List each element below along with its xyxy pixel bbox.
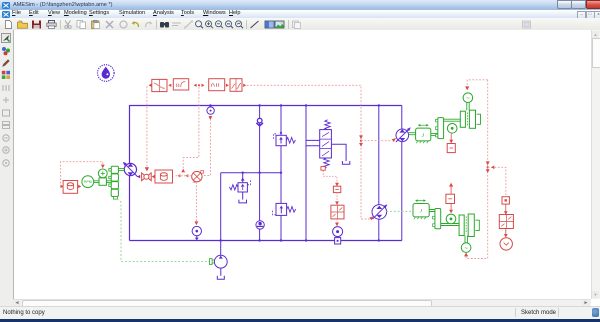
wire top main bbox=[130, 105, 402, 107]
check valve CV2 bbox=[256, 221, 264, 229]
wire riser x306 bbox=[305, 106, 307, 241]
speed sensor SS2 bbox=[446, 214, 456, 224]
tank T1 under relief valve bbox=[239, 192, 247, 203]
wire bottom main bbox=[130, 240, 402, 242]
torque sink box R2 bbox=[446, 183, 455, 214]
arrow into pump M2 bbox=[369, 215, 374, 220]
pump/motor M1 top right bbox=[396, 126, 412, 142]
coupler CP2 bbox=[433, 209, 441, 229]
rotary load J2 bbox=[413, 199, 429, 219]
gain block G2 bbox=[502, 197, 509, 204]
wire riser x220.7 to pump M3 bbox=[220, 173, 222, 256]
shaft CP2 to clutch CL2 bbox=[441, 224, 459, 226]
generator circle GC1 bbox=[463, 93, 473, 110]
arrow B0 to RPM source bbox=[78, 185, 81, 189]
gain block G1 bbox=[333, 186, 340, 192]
mech wire pump M2 to load J2 bbox=[386, 210, 413, 212]
coupler nub into M3 bbox=[210, 259, 215, 265]
pressure sensor S2 bottom left bbox=[192, 226, 201, 240]
clutch CL2 bbox=[459, 214, 479, 237]
arrow into sensor SP bbox=[101, 165, 105, 169]
svg-text:~: ~ bbox=[466, 96, 470, 102]
mech wire stack to motor M3 bbox=[117, 199, 209, 261]
wire right riser below pump M1 bbox=[401, 142, 403, 241]
coupler CP1 bbox=[436, 118, 444, 139]
pump P1 main (variable) bbox=[122, 161, 138, 177]
directional valve DV1 body bbox=[320, 130, 332, 158]
shaft PM1 to gearbox bbox=[94, 181, 99, 183]
valve DV1 signal output to display chain bbox=[323, 171, 337, 185]
check valve CV1 (ball seat) bbox=[256, 118, 263, 126]
arrow B5 to X1 bbox=[152, 175, 155, 178]
shaft gearbox to pump stack bbox=[106, 181, 111, 183]
signal wire junction to T-node bbox=[183, 87, 199, 172]
gearbox block GB bbox=[99, 178, 106, 185]
shaft J1 to coupler CP1 bbox=[431, 133, 438, 135]
junction on long wire bbox=[359, 135, 363, 146]
wire mid horizontal y172.7 bbox=[221, 172, 281, 174]
arrow into gain G1 bbox=[335, 183, 339, 187]
pressure compensator PC2 bbox=[273, 203, 296, 215]
multiplier X2 output drop to sensor S2 bbox=[195, 182, 199, 225]
wire left main bbox=[129, 105, 131, 241]
rotary load J1 bbox=[416, 124, 431, 143]
arrow K1 to sensor S3 bbox=[335, 219, 339, 226]
pump P1 control arrow bbox=[137, 175, 140, 178]
arrow into gen circle GC1 bbox=[465, 86, 469, 90]
valve DV1 bottom spring bbox=[324, 158, 329, 168]
wire riser x259.6 bbox=[259, 106, 261, 241]
arrows on block row bbox=[149, 84, 247, 87]
signal block B1 (saturation map) bbox=[152, 79, 167, 91]
constant box B5 bbox=[155, 170, 173, 183]
scope circle V1 bbox=[500, 238, 512, 250]
torque sink box R1 bbox=[447, 133, 455, 152]
multiplier X2 bbox=[192, 171, 204, 183]
signal block B2 (data curve) bbox=[173, 79, 188, 90]
toolbar icons bbox=[0, 0, 600, 1]
wire right riser to pump M1 bbox=[401, 106, 403, 130]
speed sensor SP bbox=[98, 169, 107, 178]
branch to display stack bbox=[488, 166, 506, 196]
junction J2 on right loop bbox=[486, 161, 490, 173]
signal wire B1 to valve X1 bbox=[146, 87, 148, 168]
pressure compensator PC1 bbox=[273, 132, 295, 146]
dashes T-node to multiplier bbox=[176, 175, 192, 177]
constant box B0 bbox=[63, 181, 78, 194]
shaft stack to pump P1 bbox=[118, 168, 124, 170]
generator circle GC2 bbox=[461, 236, 471, 253]
shaft pump M1 to load J1 bbox=[409, 133, 416, 135]
arrow into X1 bbox=[145, 167, 149, 171]
wire riser x281 bbox=[280, 106, 282, 241]
sensor S1 signal drop bbox=[203, 116, 212, 176]
prime mover RPM source PM1 bbox=[82, 176, 94, 188]
shaft J2 to coupler CP2 bbox=[429, 210, 435, 212]
long signal wire B4 to pumps bbox=[247, 85, 370, 219]
converter block K1 bbox=[331, 205, 344, 219]
wire G1 to converter K1 bbox=[335, 193, 339, 205]
arrow into B0 bbox=[60, 185, 63, 189]
svg-text:RPM: RPM bbox=[84, 180, 92, 184]
wire K2 to scope V1 bbox=[504, 229, 508, 238]
clutch CL1 bbox=[460, 110, 480, 128]
valve DV1 drain line bbox=[331, 144, 346, 161]
pressure sensor S3 on bottom line bbox=[333, 227, 343, 237]
pump stack PS (4 sections) bbox=[109, 166, 119, 199]
tank T3 under motor M3 bbox=[217, 268, 224, 279]
connector block under S3 bbox=[335, 238, 341, 244]
feedback loop to constant B0 bbox=[61, 162, 103, 184]
T-node arrows bbox=[177, 169, 188, 178]
valve DV1 top spring bbox=[325, 120, 330, 130]
fluid properties icon F1 bbox=[98, 65, 115, 82]
valve X1 (signal valve) bbox=[142, 173, 152, 181]
wire valve inlet stubs bbox=[306, 140, 320, 145]
signal block B4 (dual saturation) bbox=[230, 79, 242, 92]
relief valve RV1 bbox=[229, 173, 250, 192]
pressure sensor S1 on top line bbox=[207, 107, 214, 114]
shaft CP1 to clutch CL1 bbox=[444, 119, 461, 121]
right signal loop wire bbox=[466, 80, 488, 259]
wire G2 to converter K2 bbox=[504, 204, 508, 215]
wire riser x378 to pump M2 bbox=[378, 106, 380, 241]
pump/motor M2 bottom right bbox=[372, 203, 388, 219]
motor M3 bottom bbox=[214, 255, 227, 268]
tank T2 valve drain bbox=[342, 161, 349, 164]
arrow into gen circle GC2 bbox=[464, 253, 468, 257]
solenoid nub at valve bottom bbox=[321, 167, 325, 171]
branch to pump M1 bbox=[361, 137, 397, 142]
svg-text:~: ~ bbox=[464, 246, 468, 252]
speed sensor SS1 bbox=[447, 124, 457, 134]
junction dots bbox=[209, 104, 380, 241]
converter block K2 bbox=[499, 215, 513, 229]
signal block B3 (data curve) bbox=[209, 79, 225, 91]
